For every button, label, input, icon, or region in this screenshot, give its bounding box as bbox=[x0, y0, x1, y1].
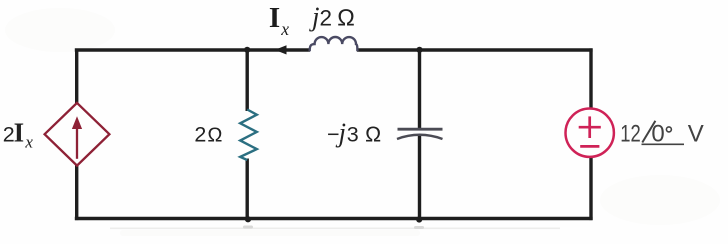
label 2Ω bbox=[194, 123, 222, 147]
label Ix bbox=[269, 2, 289, 39]
voltage source 12∠0°V bbox=[566, 109, 614, 157]
node: top junction at resistor branch bbox=[244, 47, 250, 53]
wire: resistor branch upper bbox=[245, 50, 248, 111]
current arrow Ix on top wire (pointing left) bbox=[275, 45, 287, 54]
wire: bottom wire bbox=[75, 217, 593, 220]
svg-text:I: I bbox=[14, 118, 25, 148]
svg-text:0: 0 bbox=[651, 120, 664, 147]
wire: resistor branch lower bbox=[245, 159, 248, 219]
inductor j2Ω bbox=[310, 37, 358, 51]
label j2Ω bbox=[309, 2, 355, 32]
svg-text:Ω: Ω bbox=[337, 4, 355, 30]
resistor 2Ω bbox=[240, 110, 257, 161]
wire: left riser (top-left corner up to top wire) bbox=[75, 50, 78, 104]
svg-text:x: x bbox=[280, 19, 289, 39]
node: top junction at capacitor branch bbox=[416, 47, 422, 53]
wire: right riser from top wire down to voltage source bbox=[589, 48, 592, 109]
capacitor -j3Ω bbox=[397, 129, 443, 139]
label 12∠0°V bbox=[620, 120, 703, 147]
node: bottom junction at capacitor branch bbox=[416, 216, 422, 222]
svg-text:2: 2 bbox=[320, 5, 333, 30]
label -j3Ω bbox=[327, 118, 382, 148]
svg-text:Ω: Ω bbox=[365, 123, 382, 147]
dependent current source 2Ix (diamond) bbox=[45, 103, 110, 166]
svg-text:I: I bbox=[269, 2, 280, 34]
svg-text:V: V bbox=[688, 120, 704, 147]
wire: left drop from current source to bottom wire bbox=[75, 165, 78, 221]
svg-text:x: x bbox=[24, 133, 33, 152]
label 2Ix bbox=[3, 118, 34, 152]
svg-text:3: 3 bbox=[347, 123, 359, 147]
svg-text:2: 2 bbox=[194, 123, 206, 147]
wire: right drop from voltage source to bottom wire bbox=[589, 157, 592, 221]
svg-text:12: 12 bbox=[620, 120, 641, 147]
svg-text:Ω: Ω bbox=[207, 125, 222, 147]
node: bottom junction at resistor branch bbox=[245, 216, 251, 222]
wire: capacitor branch upper bbox=[418, 50, 421, 129]
wire: top wire from inductor to top-right corner bbox=[357, 48, 593, 51]
wire: capacitor branch lower bbox=[418, 135, 421, 219]
wire: top wire from left corner to inductor bbox=[75, 48, 310, 51]
